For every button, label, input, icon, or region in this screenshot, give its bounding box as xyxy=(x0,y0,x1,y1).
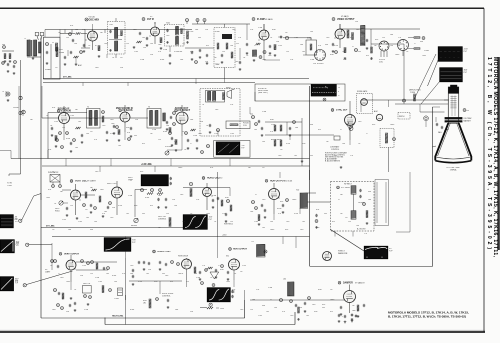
svg-text:.02: .02 xyxy=(285,32,288,34)
svg-text:V9 12BH7: V9 12BH7 xyxy=(87,181,96,183)
svg-text:.02: .02 xyxy=(50,265,52,267)
svg-text:R52: R52 xyxy=(372,124,375,126)
svg-text:1.5M: 1.5M xyxy=(294,37,298,39)
svg-text:VERT OSC: VERT OSC xyxy=(75,181,87,183)
svg-text:CONTROL: CONTROL xyxy=(158,218,166,220)
svg-text:.02: .02 xyxy=(240,271,243,273)
svg-text:120: 120 xyxy=(172,199,175,201)
svg-text:.0047: .0047 xyxy=(226,281,230,283)
svg-text:330: 330 xyxy=(90,229,93,231)
svg-text:B+ LINE: B+ LINE xyxy=(46,226,55,228)
svg-text:.01: .01 xyxy=(262,167,265,169)
svg-text:6CU6: 6CU6 xyxy=(277,208,281,210)
svg-text:100: 100 xyxy=(252,299,255,301)
svg-text:220: 220 xyxy=(334,155,337,157)
svg-text:R52: R52 xyxy=(140,171,143,173)
svg-text:2.2M: 2.2M xyxy=(152,129,156,131)
svg-text:.02: .02 xyxy=(52,229,55,231)
svg-text:V1 6AU6: V1 6AU6 xyxy=(61,109,72,113)
svg-text:OSC-MIX: OSC-MIX xyxy=(89,19,100,22)
svg-text:100: 100 xyxy=(75,147,78,149)
svg-text:1.5M: 1.5M xyxy=(258,315,262,317)
svg-text:.01: .01 xyxy=(234,273,236,275)
svg-text:100: 100 xyxy=(295,127,298,129)
svg-text:4.5MH: 4.5MH xyxy=(59,52,65,54)
svg-text:100: 100 xyxy=(68,229,71,231)
svg-text:HOR HOLD: HOR HOLD xyxy=(224,224,234,226)
svg-text:.005: .005 xyxy=(133,29,137,31)
svg-text:100: 100 xyxy=(254,129,257,131)
svg-text:.02: .02 xyxy=(358,143,360,145)
svg-text:.005: .005 xyxy=(158,44,161,46)
svg-text:.01: .01 xyxy=(206,125,208,127)
svg-text:R52: R52 xyxy=(285,229,288,231)
svg-text:MAGNET: MAGNET xyxy=(464,119,471,122)
svg-text:VIDEO OUTPUT: VIDEO OUTPUT xyxy=(337,19,355,21)
svg-text:L7: L7 xyxy=(414,43,416,45)
svg-text:C21: C21 xyxy=(236,43,239,45)
svg-text:2.2M: 2.2M xyxy=(140,59,144,61)
svg-text:B+ BOOST: B+ BOOST xyxy=(357,229,366,231)
svg-text:.0047: .0047 xyxy=(206,213,210,215)
svg-text:R52: R52 xyxy=(375,39,378,41)
svg-text:120: 120 xyxy=(148,269,151,271)
svg-text:L24: L24 xyxy=(355,21,358,23)
svg-text:C40: C40 xyxy=(95,171,98,173)
svg-text:L202: L202 xyxy=(190,31,194,33)
svg-text:FOCUS: FOCUS xyxy=(243,123,249,125)
svg-text:2.2M: 2.2M xyxy=(95,277,99,279)
svg-text:SPKR: SPKR xyxy=(226,88,231,90)
svg-text:T11: T11 xyxy=(251,241,254,243)
svg-text:VERT LIN: VERT LIN xyxy=(83,283,91,285)
svg-text:220: 220 xyxy=(150,54,153,56)
svg-text:220: 220 xyxy=(222,51,225,53)
svg-text:100: 100 xyxy=(368,199,371,201)
svg-text:.005: .005 xyxy=(60,277,64,279)
svg-text:.047: .047 xyxy=(118,145,121,147)
svg-text:C40: C40 xyxy=(274,307,277,309)
svg-text:.005: .005 xyxy=(268,55,271,57)
svg-text:.02: .02 xyxy=(280,149,283,151)
svg-text:2.2M: 2.2M xyxy=(222,213,226,215)
svg-text:+140 LINE: +140 LINE xyxy=(141,163,152,166)
svg-text:.01: .01 xyxy=(243,57,245,59)
svg-text:.0047: .0047 xyxy=(395,54,400,56)
svg-text:V11 6CU6: V11 6CU6 xyxy=(284,180,292,182)
svg-text:2.2M: 2.2M xyxy=(54,121,58,123)
svg-text:20,000V: 20,000V xyxy=(358,202,365,204)
svg-text:330: 330 xyxy=(310,155,313,157)
svg-text:1.5M: 1.5M xyxy=(98,281,102,283)
svg-text:220: 220 xyxy=(348,221,351,223)
svg-text:T3: T3 xyxy=(148,106,150,108)
svg-text:T2: T2 xyxy=(87,106,89,108)
svg-text:NOISE GATE: NOISE GATE xyxy=(357,90,368,93)
svg-text:.02: .02 xyxy=(330,289,333,291)
svg-text:.01: .01 xyxy=(345,217,348,219)
svg-text:.005: .005 xyxy=(95,67,99,69)
svg-text:120: 120 xyxy=(90,273,93,275)
svg-text:.0047: .0047 xyxy=(178,167,183,169)
svg-text:100: 100 xyxy=(78,121,81,123)
svg-text:L2: L2 xyxy=(52,42,54,44)
svg-text:.005: .005 xyxy=(100,189,104,191)
svg-text:COMP: COMP xyxy=(424,50,430,52)
svg-text:100: 100 xyxy=(106,273,109,275)
svg-text:.0047: .0047 xyxy=(66,281,70,283)
svg-text:330: 330 xyxy=(324,213,327,215)
svg-text:C40: C40 xyxy=(262,199,265,201)
svg-text:1.5M: 1.5M xyxy=(196,277,200,279)
svg-text:V4 6AG5: V4 6AG5 xyxy=(265,18,273,21)
svg-text:.005: .005 xyxy=(290,315,293,317)
svg-text:.02: .02 xyxy=(370,59,373,61)
svg-text:2.2M: 2.2M xyxy=(128,195,132,197)
svg-text:4.5MC: 4.5MC xyxy=(215,31,221,33)
svg-text:COIL: COIL xyxy=(379,61,383,63)
svg-text:TRAP: TRAP xyxy=(128,178,134,181)
svg-text:VOLUME: VOLUME xyxy=(165,146,173,148)
svg-text:T1: T1 xyxy=(24,38,26,40)
svg-text:L7: L7 xyxy=(255,194,257,196)
svg-text:.01: .01 xyxy=(90,131,93,133)
svg-text:YOKE: YOKE xyxy=(410,92,416,94)
svg-text:C40: C40 xyxy=(262,141,265,143)
svg-text:PHONO: PHONO xyxy=(13,107,20,109)
svg-text:+2: +2 xyxy=(338,87,340,89)
svg-text:DAMPER: DAMPER xyxy=(343,281,353,284)
svg-text:L7: L7 xyxy=(366,133,368,135)
svg-text:.005: .005 xyxy=(52,309,56,311)
svg-text:100: 100 xyxy=(86,217,89,219)
svg-text:V5 6AQ5: V5 6AQ5 xyxy=(341,15,349,18)
svg-text:.02: .02 xyxy=(184,149,186,151)
svg-text:220: 220 xyxy=(120,67,123,69)
svg-text:L7: L7 xyxy=(270,299,272,301)
svg-text:120: 120 xyxy=(126,43,129,45)
svg-text:.005: .005 xyxy=(278,155,281,157)
svg-text:B+ LINE: B+ LINE xyxy=(63,77,72,79)
svg-text:VERT OUTPUT: VERT OUTPUT xyxy=(64,253,80,255)
svg-text:.02: .02 xyxy=(210,277,212,279)
svg-text:B. ADJUSTMENTS: B. ADJUSTMENTS xyxy=(325,160,341,163)
svg-text:330: 330 xyxy=(358,51,361,53)
svg-text:2.2M: 2.2M xyxy=(163,49,167,51)
svg-text:120: 120 xyxy=(143,47,146,49)
svg-text:.02: .02 xyxy=(190,213,192,215)
svg-text:.005: .005 xyxy=(286,221,289,223)
svg-text:HV RECT: HV RECT xyxy=(344,184,353,186)
svg-text:120: 120 xyxy=(200,121,203,123)
svg-text:H RECT: H RECT xyxy=(338,251,346,253)
svg-text:CONTROL: CONTROL xyxy=(331,149,339,151)
svg-text:100: 100 xyxy=(142,37,145,39)
svg-text:R52: R52 xyxy=(318,129,321,131)
svg-text:220: 220 xyxy=(135,119,138,121)
svg-text:100: 100 xyxy=(390,34,393,36)
svg-text:1.5M: 1.5M xyxy=(262,111,266,113)
svg-text:V4 6K6GT: V4 6K6GT xyxy=(178,108,191,112)
svg-text:120: 120 xyxy=(190,311,193,313)
svg-text:2.2M: 2.2M xyxy=(271,124,275,126)
svg-text:.0047: .0047 xyxy=(46,197,50,199)
svg-text:120: 120 xyxy=(70,205,73,207)
svg-text:17T12, B, W (Ch. TS-395A, TS-3: 17T12, B, W (Ch. TS-395A, TS-395-02) xyxy=(486,57,492,249)
svg-text:220: 220 xyxy=(382,37,385,39)
svg-text:1.5M: 1.5M xyxy=(268,287,272,289)
svg-text:120: 120 xyxy=(222,143,225,145)
svg-text:R52: R52 xyxy=(170,281,173,283)
svg-text:.001: .001 xyxy=(250,211,253,213)
svg-text:R52: R52 xyxy=(322,304,325,306)
svg-text:R52: R52 xyxy=(366,55,369,57)
svg-text:.047: .047 xyxy=(146,273,149,275)
svg-text:.02: .02 xyxy=(182,131,184,133)
svg-text:C40: C40 xyxy=(300,229,303,231)
svg-text:V7 6AX4GT: V7 6AX4GT xyxy=(355,281,365,284)
svg-text:2.2M: 2.2M xyxy=(242,265,246,267)
svg-text:R52: R52 xyxy=(332,221,335,223)
svg-text:120: 120 xyxy=(62,127,65,129)
svg-text:L7: L7 xyxy=(96,37,98,39)
svg-text:.068: .068 xyxy=(352,310,355,312)
svg-text:HOR DISCH: HOR DISCH xyxy=(178,256,189,258)
svg-text:.01: .01 xyxy=(54,203,56,205)
svg-text:.01: .01 xyxy=(50,125,52,127)
svg-text:COIL: COIL xyxy=(243,125,247,127)
svg-text:1ST IF: 1ST IF xyxy=(147,19,155,21)
svg-text:C40: C40 xyxy=(114,281,117,283)
svg-text:1.5M: 1.5M xyxy=(78,221,82,223)
svg-text:L7: L7 xyxy=(254,45,256,47)
svg-text:BRIGHTNESS: BRIGHTNESS xyxy=(271,139,281,141)
svg-text:.02: .02 xyxy=(406,51,408,53)
svg-text:1.5M: 1.5M xyxy=(134,51,138,53)
svg-text:.0047: .0047 xyxy=(104,43,108,45)
svg-text:TUNER: TUNER xyxy=(45,69,52,71)
svg-text:.0047: .0047 xyxy=(270,229,275,231)
svg-text:R52: R52 xyxy=(330,311,333,313)
svg-text:.047: .047 xyxy=(215,109,219,111)
svg-text:C40: C40 xyxy=(270,221,273,223)
svg-text:220: 220 xyxy=(166,213,169,215)
svg-text:C30: C30 xyxy=(276,41,279,43)
svg-text:120: 120 xyxy=(230,221,233,223)
svg-text:HORIZ CONT: HORIZ CONT xyxy=(158,251,172,253)
svg-text:L7: L7 xyxy=(218,265,220,267)
svg-text:100: 100 xyxy=(266,311,269,313)
svg-text:.005: .005 xyxy=(102,125,105,127)
svg-text:L7: L7 xyxy=(338,199,340,201)
svg-text:L7: L7 xyxy=(190,143,192,145)
svg-text:330: 330 xyxy=(310,124,313,126)
svg-text:HOR OUTPUT: HOR OUTPUT xyxy=(233,249,248,251)
svg-text:.01: .01 xyxy=(85,209,88,211)
svg-text:L201: L201 xyxy=(59,49,63,51)
svg-text:V12 1B3GT: V12 1B3GT xyxy=(341,187,351,189)
svg-text:L7: L7 xyxy=(352,46,354,48)
svg-text:.005: .005 xyxy=(110,119,114,121)
svg-text:HEIGHT: HEIGHT xyxy=(131,225,137,227)
svg-text:.01: .01 xyxy=(74,289,76,291)
svg-text:C40: C40 xyxy=(94,221,97,223)
svg-text:330: 330 xyxy=(322,307,325,309)
svg-text:330: 330 xyxy=(198,37,201,39)
svg-text:330: 330 xyxy=(142,213,145,215)
svg-text:2.2M: 2.2M xyxy=(82,265,86,267)
svg-text:2.2M: 2.2M xyxy=(278,45,282,47)
svg-text:R52: R52 xyxy=(280,201,283,203)
svg-text:300: 300 xyxy=(2,44,5,46)
svg-text:T10: T10 xyxy=(296,190,299,192)
svg-text:-2: -2 xyxy=(338,95,340,97)
svg-text:CRT SOCKET: CRT SOCKET xyxy=(313,63,324,65)
svg-text:120: 120 xyxy=(250,309,253,311)
svg-text:C40: C40 xyxy=(86,133,89,135)
svg-text:L7: L7 xyxy=(58,273,60,275)
svg-text:L7: L7 xyxy=(198,221,200,223)
svg-text:.0047: .0047 xyxy=(390,124,395,126)
svg-text:2.2M: 2.2M xyxy=(62,219,66,221)
svg-text:220: 220 xyxy=(112,207,115,209)
svg-text:.005: .005 xyxy=(326,37,329,39)
svg-text:.01: .01 xyxy=(214,221,216,223)
svg-text:330: 330 xyxy=(134,135,137,137)
svg-text:330: 330 xyxy=(368,191,371,193)
svg-text:L7: L7 xyxy=(340,129,342,131)
svg-text:.0047: .0047 xyxy=(422,55,426,57)
svg-text:100: 100 xyxy=(262,227,265,229)
svg-text:.047: .047 xyxy=(294,155,297,157)
svg-text:L7: L7 xyxy=(52,171,54,173)
svg-text:.0047: .0047 xyxy=(292,199,297,201)
svg-text:T202: T202 xyxy=(166,22,170,24)
svg-text:220: 220 xyxy=(66,37,69,39)
svg-text:.01: .01 xyxy=(120,57,123,59)
svg-text:CONTROL: CONTROL xyxy=(162,295,171,297)
svg-text:220: 220 xyxy=(80,275,83,277)
svg-text:17BP4A: 17BP4A xyxy=(450,169,457,172)
svg-text:V10: V10 xyxy=(219,178,222,180)
svg-text:.047: .047 xyxy=(306,315,309,317)
svg-text:.02: .02 xyxy=(246,55,248,57)
svg-text:V3: V3 xyxy=(150,16,152,18)
svg-text:.01: .01 xyxy=(55,67,58,69)
svg-text:C40: C40 xyxy=(312,304,315,306)
svg-text:1.5M: 1.5M xyxy=(70,115,74,117)
svg-text:.0047: .0047 xyxy=(330,299,335,301)
svg-text:T4: T4 xyxy=(202,104,204,106)
svg-text:0: 0 xyxy=(338,91,339,93)
svg-text:120: 120 xyxy=(286,51,289,53)
svg-text:R52: R52 xyxy=(142,143,145,145)
svg-text:HIGH LINE: HIGH LINE xyxy=(112,315,124,317)
svg-text:V11: V11 xyxy=(226,256,229,258)
svg-text:2.2M: 2.2M xyxy=(214,133,218,135)
svg-text:.047: .047 xyxy=(126,213,129,215)
svg-text:.0047: .0047 xyxy=(198,133,202,135)
svg-text:.047: .047 xyxy=(165,275,169,277)
svg-text:.047: .047 xyxy=(302,221,305,223)
svg-text:220: 220 xyxy=(158,139,161,141)
svg-text:2.2M: 2.2M xyxy=(84,309,88,311)
svg-text:330: 330 xyxy=(325,44,328,46)
svg-text:1.5M: 1.5M xyxy=(310,59,314,61)
svg-text:1.5M: 1.5M xyxy=(258,27,262,29)
svg-text:100: 100 xyxy=(302,51,305,53)
svg-text:47: 47 xyxy=(95,45,97,47)
svg-text:HORIZ OSC: HORIZ OSC xyxy=(207,178,220,180)
svg-text:.005: .005 xyxy=(166,35,169,37)
svg-text:.01: .01 xyxy=(112,57,114,59)
svg-text:R52: R52 xyxy=(206,45,209,47)
svg-text:C40: C40 xyxy=(310,31,313,33)
svg-text:HOLD: HOLD xyxy=(55,210,60,212)
svg-text:.047: .047 xyxy=(180,194,184,196)
svg-text:C40: C40 xyxy=(356,29,359,31)
svg-text:.047: .047 xyxy=(182,43,185,45)
svg-text:(SEE TEXT): (SEE TEXT) xyxy=(258,92,268,94)
svg-text:120: 120 xyxy=(205,61,208,63)
svg-text:330: 330 xyxy=(262,305,265,307)
svg-text:.047: .047 xyxy=(240,309,244,311)
svg-text:R52: R52 xyxy=(150,205,153,207)
svg-text:L30: L30 xyxy=(283,279,286,281)
svg-text:V2 6J6: V2 6J6 xyxy=(89,17,96,19)
svg-text:C40: C40 xyxy=(150,43,153,45)
svg-text:.047: .047 xyxy=(232,29,236,31)
svg-text:220: 220 xyxy=(66,311,69,313)
svg-text:.005: .005 xyxy=(111,123,114,125)
svg-text:.047: .047 xyxy=(342,51,345,53)
svg-text:B, 17K16, 17T11, 17T12, B, W (: B, 17K16, 17T11, 17T12, B, W (Ch. TS-395… xyxy=(388,314,466,318)
svg-text:1.5M: 1.5M xyxy=(212,195,216,197)
svg-text:.02: .02 xyxy=(88,45,90,47)
svg-text:100: 100 xyxy=(300,44,303,46)
svg-text:330: 330 xyxy=(420,41,423,43)
svg-text:SYNC SEP: SYNC SEP xyxy=(336,110,348,112)
svg-text:.01: .01 xyxy=(46,115,48,117)
svg-text:2.2M: 2.2M xyxy=(118,35,122,37)
svg-text:.01: .01 xyxy=(270,37,272,39)
svg-text:+250: +250 xyxy=(222,235,226,237)
svg-text:.005: .005 xyxy=(130,265,133,267)
svg-text:.047: .047 xyxy=(235,61,239,63)
svg-text:V2 6AU6: V2 6AU6 xyxy=(122,108,133,112)
svg-text:.005: .005 xyxy=(110,217,113,219)
svg-text:1.5M: 1.5M xyxy=(254,221,258,223)
svg-text:T201: T201 xyxy=(109,24,113,26)
svg-text:330: 330 xyxy=(162,273,165,275)
svg-text:12BH7: 12BH7 xyxy=(45,271,50,273)
svg-text:120: 120 xyxy=(205,29,208,31)
svg-text:1.5M: 1.5M xyxy=(230,133,234,135)
svg-text:C40: C40 xyxy=(358,121,361,123)
svg-text:WIDTH: WIDTH xyxy=(399,116,405,118)
svg-text:VERT OSC: VERT OSC xyxy=(107,183,117,185)
